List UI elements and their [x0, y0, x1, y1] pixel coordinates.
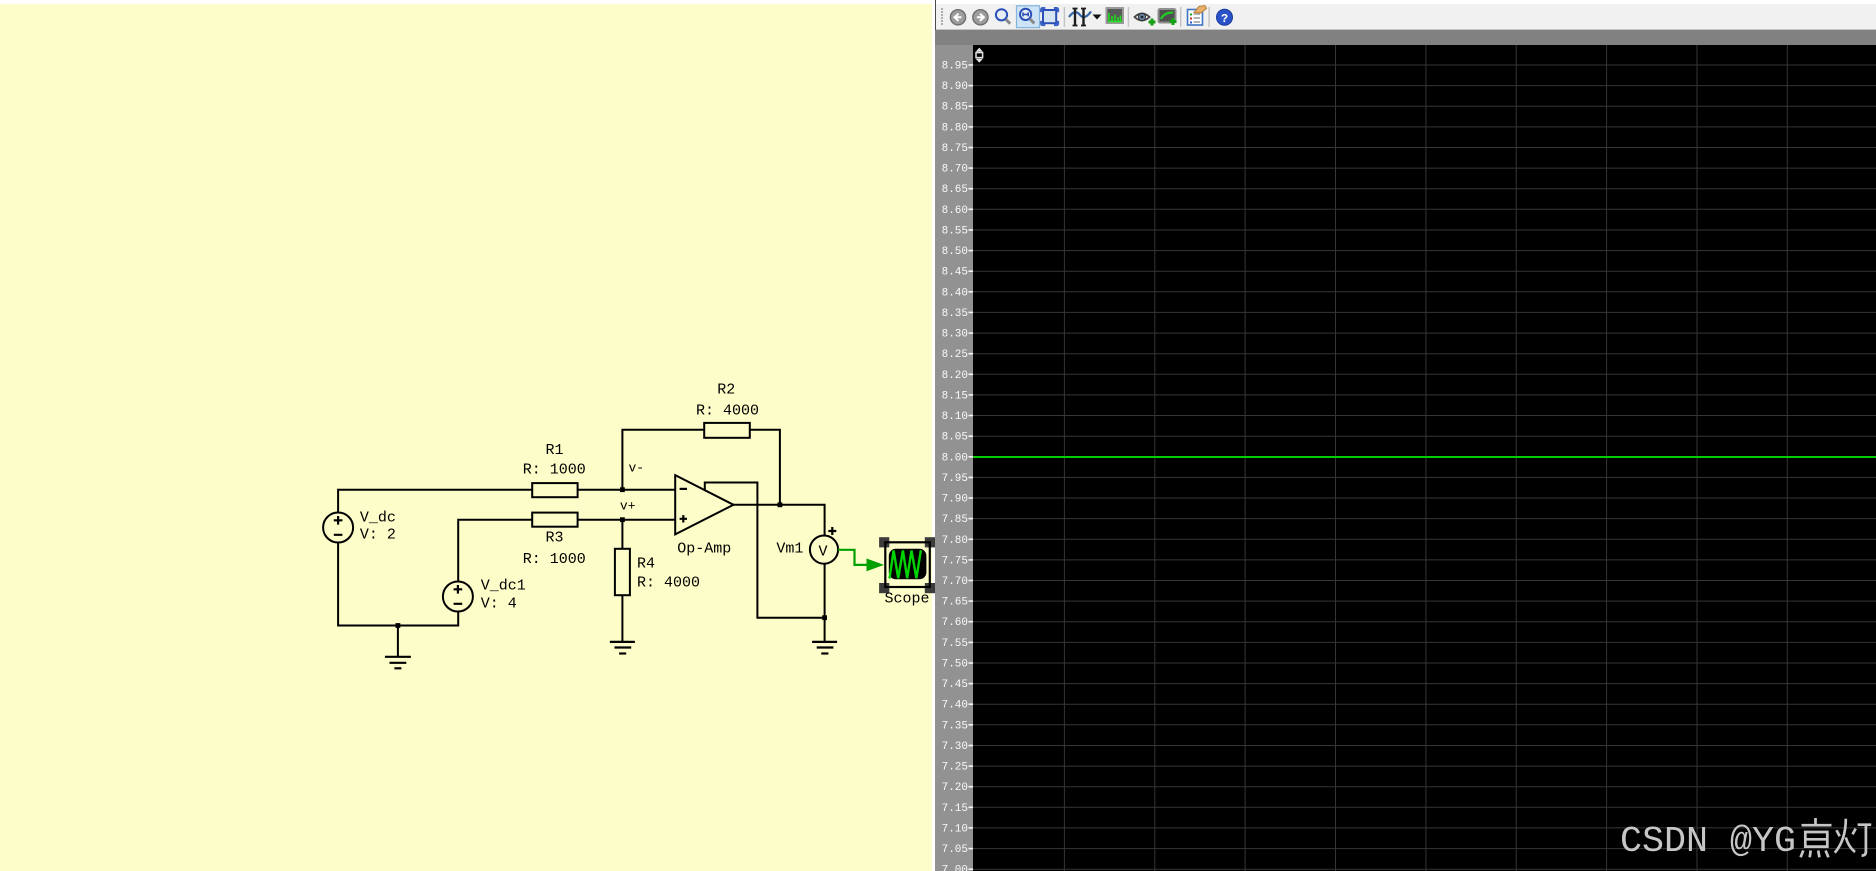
- svg-text:7.50: 7.50: [942, 659, 968, 671]
- scope waveform: [890, 550, 921, 578]
- svg-text:8.35: 8.35: [942, 308, 968, 320]
- plot vertical gridlines: [1064, 45, 1787, 871]
- node v+ junction dot: [620, 517, 625, 522]
- node output junction dot: [778, 502, 783, 507]
- svg-text:7.75: 7.75: [942, 555, 968, 567]
- svg-text:7.55: 7.55: [942, 638, 968, 650]
- svg-text:8.65: 8.65: [942, 184, 968, 196]
- green probe wire from Vm1 to Scope: [838, 550, 884, 572]
- ground (left, under sources): [385, 657, 411, 669]
- svg-text:R4: R4: [637, 556, 655, 573]
- ground (middle, under R4): [610, 642, 635, 654]
- value R: 4000: [696, 403, 759, 420]
- svg-text:7.70: 7.70: [942, 576, 968, 588]
- icon: forward: [973, 10, 988, 25]
- svg-text:V: 4: V: 4: [481, 596, 517, 613]
- svg-text:8.95: 8.95: [942, 61, 968, 73]
- op-amp U1: [675, 475, 733, 534]
- svg-text:8.30: 8.30: [942, 329, 968, 341]
- svg-text:8.15: 8.15: [942, 390, 968, 402]
- label v+: [620, 499, 636, 514]
- svg-text:8.85: 8.85: [942, 102, 968, 114]
- svg-text:7.25: 7.25: [942, 762, 968, 774]
- svg-text:8.45: 8.45: [942, 267, 968, 279]
- svg-text:R: 4000: R: 4000: [637, 575, 700, 592]
- svg-text:v-: v-: [629, 461, 645, 476]
- plot horizontal gridlines + ticks + labels: [942, 61, 1876, 871]
- RIGHT PANEL OVERLAY SVG (toolbar icons + plot): [935, 0, 1876, 871]
- wire node v- up to R2 left: [622, 430, 704, 490]
- svg-text:7.40: 7.40: [942, 700, 968, 712]
- value V: 2: [360, 527, 396, 544]
- node source rail junction dot (left): [396, 623, 401, 628]
- node ground rail junction dot (right): [822, 615, 827, 620]
- icon: properties clipboard hand: [1188, 6, 1207, 26]
- label Scope: [885, 591, 930, 608]
- label R3: [546, 530, 564, 547]
- svg-text:Vm1: Vm1: [776, 541, 803, 558]
- value R: 4000: [637, 575, 700, 592]
- svg-text:R2: R2: [717, 382, 735, 399]
- wire V_dc plus terminal up and right to R1: [338, 490, 532, 514]
- svg-text:V_dc1: V_dc1: [481, 578, 526, 595]
- value R: 1000: [523, 462, 586, 479]
- label v-: [629, 461, 645, 476]
- svg-text:7.45: 7.45: [942, 679, 968, 691]
- svg-text:7.30: 7.30: [942, 741, 968, 753]
- wire R3 left to V_dc1 top: [458, 520, 532, 583]
- svg-text:CSDN @YG: CSDN @YG: [1620, 821, 1796, 862]
- green trace at 8.00: [973, 456, 1876, 458]
- icon: dropdown arrow: [1093, 15, 1102, 20]
- plot spinner widget: [976, 48, 983, 63]
- svg-text:7.20: 7.20: [942, 782, 968, 794]
- svg-text:8.60: 8.60: [942, 205, 968, 217]
- icon: refit dashed frame: [1041, 8, 1058, 25]
- svg-text:7.00: 7.00: [942, 865, 968, 871]
- svg-text:7.80: 7.80: [942, 535, 968, 547]
- voltage source V_dc: [323, 513, 353, 543]
- svg-text:7.90: 7.90: [942, 494, 968, 506]
- svg-text:Scope: Scope: [885, 591, 930, 608]
- svg-text:8.40: 8.40: [942, 287, 968, 299]
- svg-text:8.55: 8.55: [942, 226, 968, 238]
- value V: 4: [481, 596, 517, 613]
- svg-text:8.50: 8.50: [942, 246, 968, 258]
- svg-text:R: 1000: R: 1000: [523, 551, 586, 568]
- svg-text:7.15: 7.15: [942, 803, 968, 815]
- left schematic canvas background: [0, 4, 932, 871]
- svg-text:8.70: 8.70: [942, 164, 968, 176]
- CIRCUIT SCHEMATIC SVG: [0, 0, 935, 871]
- resistor R3: [532, 513, 577, 527]
- wire node v+ down to R4: [621, 520, 623, 549]
- label V_dc1: [481, 578, 526, 595]
- watermark CSDN @YG dianDeng: [1620, 818, 1871, 862]
- label Op-Amp: [677, 541, 731, 558]
- label Vm1: [776, 541, 803, 558]
- icon: back: [950, 10, 965, 25]
- voltmeter Vm1: [810, 527, 838, 564]
- svg-text:7.60: 7.60: [942, 617, 968, 629]
- svg-text:8.25: 8.25: [942, 349, 968, 361]
- svg-text:V: V: [819, 544, 828, 561]
- icon: zoom horizontal (selected): [1017, 6, 1040, 28]
- scope SCOPE1 selection handles: [879, 537, 935, 593]
- node v- junction dot: [620, 487, 625, 492]
- svg-text:8.10: 8.10: [942, 411, 968, 423]
- voltage source V_dc1: [443, 582, 473, 612]
- svg-text:8.00: 8.00: [942, 452, 968, 464]
- wire ground stem left: [397, 626, 399, 657]
- svg-text:8.75: 8.75: [942, 143, 968, 155]
- label R2: [717, 382, 735, 399]
- svg-text:R: 4000: R: 4000: [696, 403, 759, 420]
- wire V_dc bottom to rail and V_dc1 bottom rail: [338, 543, 458, 626]
- icon: help: [1217, 9, 1233, 26]
- wire op-amp ground pin to bottom rail: [705, 483, 825, 618]
- svg-text:V_dc: V_dc: [360, 510, 396, 527]
- svg-text:R3: R3: [546, 530, 564, 547]
- svg-text:7.65: 7.65: [942, 597, 968, 609]
- svg-text:v+: v+: [620, 499, 636, 514]
- icon: add curve (screen plus): [1159, 9, 1177, 25]
- svg-text:7.85: 7.85: [942, 514, 968, 526]
- resistor R1: [532, 483, 577, 497]
- svg-text:8.20: 8.20: [942, 370, 968, 382]
- scope SCOPE1 body: [885, 542, 930, 587]
- svg-text:8.80: 8.80: [942, 122, 968, 134]
- wire Vm1 bottom to ground: [824, 563, 826, 642]
- label R4: [637, 556, 655, 573]
- svg-text:?: ?: [1221, 12, 1228, 26]
- icon: zoom: [996, 9, 1010, 24]
- wire R1 right to op-amp inverting input: [578, 489, 676, 491]
- value R: 1000: [523, 551, 586, 568]
- svg-text:Op-Amp: Op-Amp: [677, 541, 731, 558]
- ground (right, under Vm1): [812, 642, 837, 654]
- svg-text:8.90: 8.90: [942, 81, 968, 93]
- svg-text:R1: R1: [546, 442, 564, 459]
- right panel backgrounds: [935, 0, 1876, 30]
- svg-text:7.10: 7.10: [942, 823, 968, 835]
- resistor R2: [704, 423, 750, 438]
- toolbar grip: [941, 8, 943, 25]
- label R1: [546, 442, 564, 459]
- svg-text:7.35: 7.35: [942, 720, 968, 732]
- icon: cursor measure: [1069, 9, 1091, 26]
- icon: spectrum screen: [1107, 8, 1124, 23]
- icon: show datapoints (eye plus): [1135, 13, 1156, 25]
- svg-text:8.05: 8.05: [942, 432, 968, 444]
- resistor R4: [615, 549, 630, 595]
- label V_dc: [360, 510, 396, 527]
- wire R4 bottom to ground: [621, 595, 623, 642]
- svg-text:R: 1000: R: 1000: [523, 462, 586, 479]
- wire op-amp output to voltmeter Vm1: [734, 505, 825, 536]
- svg-text:V: 2: V: 2: [360, 527, 396, 544]
- wire R3 right to op-amp non-inverting input: [578, 519, 676, 521]
- wire R2 right down to output node: [750, 430, 780, 505]
- svg-text:7.95: 7.95: [942, 473, 968, 485]
- toolbar separators: [1064, 7, 1209, 27]
- svg-text:7.05: 7.05: [942, 844, 968, 856]
